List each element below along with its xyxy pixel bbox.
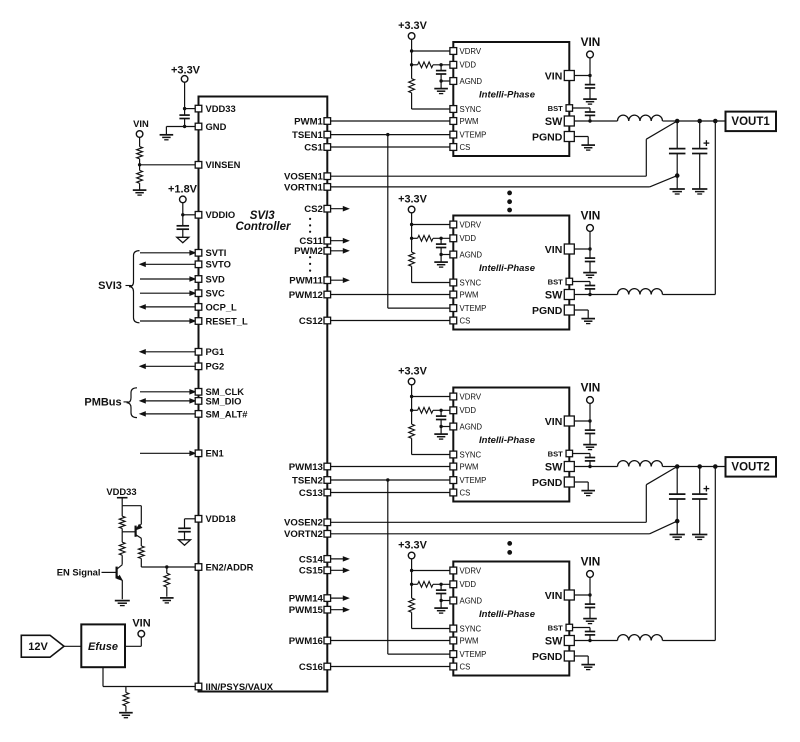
ground (R6) — [160, 597, 174, 599]
svg-text:PWM16: PWM16 — [289, 636, 323, 647]
svg-text:CS: CS — [460, 488, 471, 497]
svg-text:CS12: CS12 — [299, 316, 323, 327]
wire base node to Q2 — [122, 531, 134, 533]
pin IIN/PSYS/VAUX (U1) — [195, 683, 202, 690]
node BST-SW junction phase 4 — [588, 639, 591, 642]
svg-text:PWM14: PWM14 — [289, 594, 324, 605]
svg-text:+3.3V: +3.3V — [171, 64, 201, 76]
node VOUT2 junction 3 — [713, 464, 718, 469]
capacitor C3 VDD18 — [185, 518, 198, 520]
svg-text:BST: BST — [548, 449, 564, 458]
connector 12V input flag — [21, 635, 64, 657]
wire BST phase 2 — [569, 281, 590, 283]
capacitor C (BST) phase 2 — [589, 282, 591, 286]
pin CS12 (U1) — [324, 317, 331, 324]
svg-text:Intelli-Phase: Intelli-Phase — [479, 90, 536, 101]
wire VIN rail phase 4 — [589, 577, 591, 595]
wire +1.8V to VDDIO — [182, 203, 184, 215]
wire CS15 stub arrow — [327, 569, 344, 571]
svg-text:CS: CS — [460, 316, 471, 325]
capacitor C (BST) phase 3 — [589, 454, 591, 458]
svg-text:VDD33: VDD33 — [206, 103, 236, 114]
ground (VOUT2 bulk cap) — [692, 534, 707, 536]
pin VTEMP (phase 4) — [450, 651, 457, 658]
pin GND (U1) — [195, 123, 202, 130]
svg-text:VIN: VIN — [545, 70, 563, 82]
ground (VIN cap) phase 2 — [583, 272, 597, 274]
wire VOUT1 rail — [677, 120, 725, 122]
ground (VOUT2 ceramic cap) — [670, 534, 685, 536]
ground (AGND) phase 3 — [434, 433, 448, 435]
pin VORTN2 (U1) — [324, 531, 331, 538]
wire BST phase 3 — [569, 453, 590, 455]
node VDD cap junction phase 4 — [439, 583, 442, 586]
op-amp U5 Intelli-Phase block 4 — [453, 562, 569, 676]
svg-text:CS2: CS2 — [304, 204, 323, 215]
node VIN junction phase 1 — [588, 74, 591, 77]
svg-text:VDD18: VDD18 — [206, 513, 236, 524]
wire AGND phase 1 — [441, 80, 453, 82]
pin VDD (phase 4) — [450, 581, 457, 588]
svg-text:GND: GND — [206, 121, 227, 132]
pin VDD (phase 3) — [450, 407, 457, 414]
svg-text:RESET_L: RESET_L — [206, 315, 248, 326]
pin VORTN1 (U1) — [324, 184, 331, 191]
wire Efuse to VIN — [125, 645, 141, 647]
brace PMBus group — [127, 388, 138, 418]
pin PWM12 (U1) — [324, 291, 331, 298]
svg-text:SW: SW — [545, 290, 563, 302]
svg-text:PWM: PWM — [460, 636, 479, 645]
svg-text:AGND: AGND — [460, 422, 483, 431]
svg-text:VIN: VIN — [581, 208, 601, 222]
wire +3.3V rail phase 2 — [411, 213, 413, 225]
pin VINSEN (U1) — [195, 162, 202, 169]
wire PG1 output arrow — [144, 351, 195, 353]
pin CS1 (U1) — [324, 144, 331, 151]
ellipsis PWM2..PWM11 — [309, 256, 311, 258]
node VDD junction phase 4 — [410, 583, 413, 586]
wire junction to VDD33 pin — [185, 108, 197, 110]
svg-text:SVI3: SVI3 — [98, 280, 122, 292]
ground (VIN cap) phase 1 — [583, 98, 597, 100]
svg-text:SYNC: SYNC — [460, 624, 482, 633]
wire SYNC phase 1 — [411, 93, 413, 109]
svg-text:SYNC: SYNC — [460, 105, 482, 114]
svg-text:Intelli-Phase: Intelli-Phase — [479, 609, 536, 620]
wire SYNC phase 3 — [411, 438, 413, 454]
wire SW to VOUT node phase 4 — [663, 640, 716, 642]
op-amp U3 Intelli-Phase block 2 — [453, 216, 569, 330]
svg-text:VOUT1: VOUT1 — [731, 116, 770, 128]
resistor R6 (EN2 pulldown) — [166, 567, 168, 573]
ground (PGND) phase 4 — [581, 664, 595, 666]
node VDRV junction phase 3 — [410, 395, 413, 398]
node VDD junction phase 2 — [410, 237, 413, 240]
svg-text:OCP_L: OCP_L — [206, 301, 238, 312]
svg-text:VDD: VDD — [460, 234, 477, 243]
ground (PGND) phase 1 — [581, 144, 595, 146]
pin PWM (phase 1) — [450, 118, 457, 125]
capacitor C (VOUT1 ceramic) — [676, 121, 678, 149]
svg-text:BST: BST — [548, 104, 564, 113]
pin SVC (U1) — [195, 290, 202, 297]
pin AGND (phase 3) — [450, 423, 457, 430]
capacitor C (VIN) phase 3 — [589, 421, 591, 430]
wire VIN rail phase 3 — [589, 403, 591, 421]
svg-text:PWM13: PWM13 — [289, 462, 323, 473]
wire +3.3V rail phase 1 — [411, 39, 413, 51]
pin PGND (phase 2) — [564, 305, 574, 315]
pin RESET_L (U1) — [195, 318, 202, 325]
wire SYNC phase 4 — [411, 612, 413, 628]
svg-text:PGND: PGND — [532, 131, 563, 143]
wire AGND phase 4 — [441, 600, 453, 602]
pin BST (phase 3) — [566, 450, 573, 457]
pin VIN (phase 1) — [564, 71, 574, 81]
pin SM_CLK (U1) — [195, 389, 202, 396]
wire PG2 output arrow — [144, 365, 195, 367]
svg-text:VDD33: VDD33 — [106, 486, 136, 497]
svg-text:SYNC: SYNC — [460, 450, 482, 459]
op-amp U1 SVI3 Controller box — [199, 97, 328, 692]
svg-text:SM_DIO: SM_DIO — [206, 395, 242, 406]
node AGND junction phase 3 — [439, 425, 442, 428]
svg-text:SVTO: SVTO — [206, 259, 231, 270]
pin VDDIO (U1) — [195, 212, 202, 219]
pin BST (phase 1) — [566, 105, 573, 112]
wire VIN rail phase 1 — [589, 58, 591, 76]
pin TSEN2 (U1) — [324, 477, 331, 484]
svg-text:PGND: PGND — [532, 651, 563, 663]
svg-text:CS13: CS13 — [299, 488, 323, 499]
pin PWM2 (U1) — [324, 248, 331, 255]
wire VIN pin phase 1 — [569, 75, 590, 77]
node AGND junction phase 2 — [439, 253, 442, 256]
svg-text:Controller: Controller — [236, 221, 291, 233]
pin BST (phase 2) — [566, 278, 573, 285]
wire CS16 to phase4 CS — [327, 666, 453, 668]
wire PGND phase 3 — [569, 481, 588, 483]
pin VDRV (phase 4) — [450, 567, 457, 574]
resistor R (SYNC) phase 3 — [411, 410, 413, 424]
pin PWM15 (U1) — [324, 606, 331, 613]
pin VDD (phase 2) — [450, 235, 457, 242]
pin PWM (phase 4) — [450, 637, 457, 644]
resistor R (SYNC) phase 2 — [411, 238, 413, 252]
svg-text:CS: CS — [460, 662, 471, 671]
pin VIN (phase 3) — [564, 416, 574, 426]
capacitor C (VIN) phase 1 — [589, 76, 591, 85]
node AGND junction phase 4 — [439, 599, 442, 602]
pin VTEMP (phase 2) — [450, 305, 457, 312]
node VDD cap junction phase 2 — [439, 237, 442, 240]
node VDD33 junction — [183, 107, 186, 110]
node VOUT2 junction 2 — [697, 464, 702, 469]
svg-text:SM_ALT#: SM_ALT# — [206, 408, 249, 419]
svg-text:+1.8V: +1.8V — [168, 184, 198, 196]
inductor L4 — [618, 635, 663, 641]
pin CS2 (U1) — [324, 205, 331, 212]
wire RESET_L input arrow — [140, 320, 194, 322]
node GND junction — [183, 125, 186, 128]
wire GND pin to ground — [166, 126, 197, 128]
node VOUT1 junction 2 — [697, 119, 702, 124]
wire TSEN2 to phase3 VTEMP — [327, 479, 453, 481]
wire VDRV phase 4 — [412, 570, 454, 572]
wire BST phase 1 — [569, 107, 590, 109]
pin SYNC (phase 2) — [450, 279, 457, 286]
node VDRV junction phase 2 — [410, 223, 413, 226]
pin EN1 (U1) — [195, 450, 202, 457]
node VDDIO junction — [181, 213, 184, 216]
node VDRV junction phase 4 — [410, 569, 413, 572]
node VDRV junction phase 1 — [410, 49, 413, 52]
pin SYNC (phase 1) — [450, 106, 457, 113]
ground (PGND) phase 2 — [581, 318, 595, 320]
svg-text:VORTN2: VORTN2 — [284, 529, 323, 540]
node EN2 junction — [165, 565, 168, 568]
wire SW phase 2 — [569, 294, 617, 296]
wire SVD input arrow — [140, 278, 194, 280]
wire VDD33 rail down — [121, 498, 123, 506]
pin VDRV (phase 1) — [450, 48, 457, 55]
svg-text:VTEMP: VTEMP — [460, 650, 487, 659]
node VIN junction phase 3 — [588, 419, 591, 422]
svg-text:EN2/ADDR: EN2/ADDR — [206, 561, 254, 572]
capacitor C (BST) phase 1 — [589, 108, 591, 112]
pin SVTI (U1) — [195, 250, 202, 257]
wire PWM2 stub arrow — [327, 250, 344, 252]
node VDD cap junction phase 1 — [439, 63, 442, 66]
wire SW to VOUT node phase 3 — [663, 466, 679, 468]
wire PWM12 to phase2 PWM — [327, 294, 453, 296]
pin CS14 (U1) — [324, 556, 331, 563]
svg-text:PWM: PWM — [460, 117, 479, 126]
svg-text:VOUT2: VOUT2 — [731, 462, 769, 474]
node TSEN2 branch — [386, 478, 389, 481]
pin PWM11 (U1) — [324, 277, 331, 284]
node VDD junction phase 1 — [410, 63, 413, 66]
node VINSEN junction — [138, 163, 141, 166]
pin SW (phase 3) — [564, 462, 574, 472]
wire EN1 input arrow — [140, 452, 194, 454]
wire CS14 stub arrow — [327, 558, 344, 560]
ground (AGND) phase 1 — [434, 88, 448, 90]
wire VOSEN2 feedback — [327, 521, 646, 523]
wire PGND phase 1 — [569, 136, 588, 138]
ground (VIN cap) phase 3 — [583, 444, 597, 446]
wire AGND phase 2 — [441, 254, 453, 256]
capacitor C1 VDD33 decoupling — [184, 109, 186, 116]
ellipsis between phase1 and phase2 — [507, 191, 512, 196]
resistor R (VDD filter) phase 1 — [418, 62, 433, 68]
svg-text:SW: SW — [545, 116, 563, 128]
op-amp U2 Intelli-Phase block 1 — [453, 42, 569, 156]
wire PGND phase 2 — [569, 309, 588, 311]
wire SVTO output arrow — [144, 263, 195, 265]
wire BST phase 4 — [569, 627, 590, 629]
pin VDRV (phase 3) — [450, 393, 457, 400]
svg-text:PG1: PG1 — [206, 346, 225, 357]
connector VOUT2 box — [726, 457, 777, 477]
svg-text:TSEN1: TSEN1 — [292, 130, 324, 141]
ellipsis CS2..CS11 — [309, 218, 311, 220]
inductor L1 — [618, 115, 663, 121]
ground (VDDIO, signal) — [177, 237, 189, 242]
wire +3.3V rail phase 4 — [411, 559, 413, 571]
inductor L3 — [618, 461, 663, 467]
capacitor C (VIN) phase 4 — [589, 595, 591, 604]
svg-text:CS14: CS14 — [299, 554, 324, 565]
svg-text:PWM1: PWM1 — [294, 116, 323, 127]
ground (AGND) phase 2 — [434, 261, 448, 263]
svg-text:IIN/PSYS/VAUX: IIN/PSYS/VAUX — [206, 681, 274, 692]
resistor R (VDD filter) phase 2 — [418, 235, 433, 241]
wire VINSEN to pin — [140, 164, 197, 166]
svg-text:PWM15: PWM15 — [289, 605, 324, 616]
ground (VOUT1 bulk cap) — [692, 188, 707, 190]
ground (Q1 emitter) — [115, 600, 130, 602]
resistor R (SYNC) phase 1 — [411, 65, 413, 79]
wire VIN to R1 — [139, 137, 141, 146]
ground (VIN cap) phase 4 — [583, 618, 597, 620]
svg-text:VIN: VIN — [545, 244, 563, 256]
svg-text:VINSEN: VINSEN — [206, 159, 241, 170]
pin EN2/ADDR (U1) — [195, 564, 202, 571]
pin SVD (U1) — [195, 276, 202, 283]
capacitor C (VOUT2 bulk, polarized) — [699, 467, 701, 495]
wire VDRV phase 1 — [412, 50, 454, 52]
svg-text:PWM: PWM — [460, 462, 479, 471]
pin SM_DIO (U1) — [195, 398, 202, 405]
svg-text:VOSEN1: VOSEN1 — [284, 172, 324, 183]
node TSEN1 branch — [386, 133, 389, 136]
pin PWM16 (U1) — [324, 637, 331, 644]
resistor R7 (IIN pulldown) — [125, 687, 127, 693]
wire VOUT2 rail — [677, 466, 725, 468]
node AGND junction phase 1 — [439, 79, 442, 82]
node BST-SW junction phase 1 — [588, 119, 591, 122]
ground (VDD33 cap) — [160, 134, 174, 136]
pin CS (phase 3) — [450, 489, 457, 496]
node BST-SW junction phase 3 — [588, 465, 591, 468]
wire EN Signal to Q1 base — [102, 571, 117, 573]
pin PWM14 (U1) — [324, 595, 331, 602]
svg-text:PWM2: PWM2 — [294, 246, 323, 257]
wire SM_DIO bidirectional arrow — [144, 400, 194, 402]
pin VTEMP (phase 1) — [450, 131, 457, 138]
capacitor C (BST) phase 4 — [589, 628, 591, 632]
capacitor C (VDD) phase 2 — [440, 238, 442, 244]
transistor Q2 PNP — [135, 526, 137, 537]
pin VIN (phase 2) — [564, 244, 574, 254]
svg-text:VDRV: VDRV — [460, 220, 482, 229]
capacitor C (VDD) phase 1 — [440, 65, 442, 71]
resistor R1 VINSEN upper — [137, 147, 143, 159]
pin SW (phase 1) — [564, 116, 574, 126]
wire SVTI input arrow — [140, 252, 194, 254]
svg-text:VIN: VIN — [132, 617, 150, 629]
wire VOSEN1 feedback — [327, 175, 646, 177]
wire +3.3V rail phase 3 — [411, 385, 413, 397]
connector VOUT1 box — [726, 112, 777, 132]
pin CS11 (U1) — [324, 237, 331, 244]
wire SW to VOUT node phase 2 — [663, 294, 716, 296]
svg-text:AGND: AGND — [460, 596, 483, 605]
svg-text:VIN: VIN — [581, 35, 601, 49]
wire CS12 to phase2 CS — [327, 320, 453, 322]
pin AGND (phase 1) — [450, 78, 457, 85]
svg-text:VIN: VIN — [545, 416, 563, 428]
svg-text:EN1: EN1 — [206, 448, 224, 459]
ground (AGND) phase 4 — [434, 607, 448, 609]
wire VORTN1 feedback — [327, 186, 649, 188]
pin PWM13 (U1) — [324, 463, 331, 470]
node VOUT1 junction 3 — [713, 119, 718, 124]
svg-text:VIN: VIN — [581, 380, 601, 394]
resistor R (SYNC) phase 4 — [411, 584, 413, 598]
resistor R (VDD filter) phase 4 — [418, 581, 433, 587]
wire TSEN1 to phase1 VTEMP — [327, 134, 453, 136]
wire rail tee to Q2 emitter — [122, 505, 141, 507]
pin AGND (phase 4) — [450, 597, 457, 604]
wire PGND phase 4 — [569, 655, 588, 657]
svg-text:PWM12: PWM12 — [289, 290, 323, 301]
pin VOSEN2 (U1) — [324, 519, 331, 526]
resistor R3 (Q2 base bias) — [121, 506, 123, 517]
svg-text:PGND: PGND — [532, 305, 563, 317]
ground (PGND) phase 3 — [581, 490, 595, 492]
svg-text:+3.3V: +3.3V — [398, 20, 427, 32]
pin OCP_L (U1) — [195, 304, 202, 311]
pin CS (phase 4) — [450, 663, 457, 670]
pin SYNC (phase 3) — [450, 451, 457, 458]
pin CS16 (U1) — [324, 663, 331, 670]
pin SW (phase 2) — [564, 290, 574, 300]
brace SVI3 group — [129, 251, 140, 323]
wire PWM16 to phase4 PWM — [327, 640, 453, 642]
pin TSEN1 (U1) — [324, 131, 331, 138]
pin BST (phase 4) — [566, 624, 573, 631]
pin CS (phase 2) — [450, 317, 457, 324]
ellipsis between phase3 and phase4 — [507, 541, 512, 546]
wire EN2/ADDR — [141, 566, 197, 568]
svg-text:PMBus: PMBus — [84, 397, 121, 409]
svg-text:Efuse: Efuse — [88, 641, 118, 653]
ground (VOUT1 ceramic cap) — [670, 188, 685, 190]
svg-text:VORTN1: VORTN1 — [284, 182, 324, 193]
node VOUT1 junction 1 — [675, 119, 680, 124]
svg-text:BST: BST — [548, 277, 564, 286]
wire VIN pin phase 2 — [569, 248, 590, 250]
resistor R2 VINSEN lower — [137, 170, 143, 183]
pin VIN (phase 4) — [564, 590, 574, 600]
wire TSEN1 branch down to phase2 VTEMP — [387, 135, 389, 309]
resistor R4 (collector load) — [121, 532, 123, 542]
wire SW phase 4 — [569, 640, 617, 642]
svg-text:VDDIO: VDDIO — [206, 209, 236, 220]
svg-text:PGND: PGND — [532, 477, 563, 489]
resistor R (VDD filter) phase 3 — [418, 407, 433, 413]
node VIN junction phase 2 — [588, 247, 591, 250]
wire SW to VOUT node phase 1 — [663, 120, 679, 122]
ground (VDD18, signal) — [179, 540, 191, 545]
node VOUT2 junction 1 — [675, 464, 680, 469]
capacitor C (VIN) phase 2 — [589, 249, 591, 258]
svg-text:CS16: CS16 — [299, 662, 323, 673]
pin PGND (phase 4) — [564, 651, 574, 661]
